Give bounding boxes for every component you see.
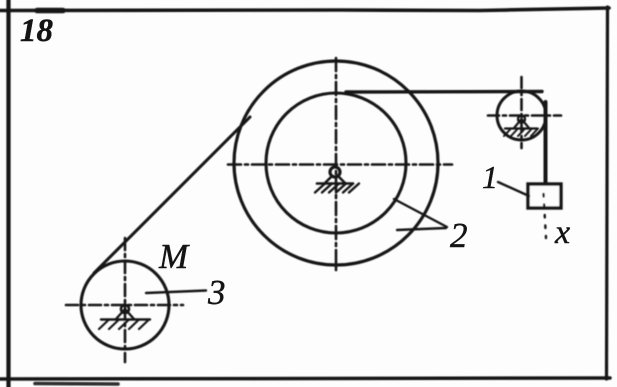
frame top border thick segment [37, 8, 63, 14]
leader line for label 1 [498, 182, 529, 196]
rope wire pulley 2 to top-right pulley [346, 90, 542, 94]
frame right border [607, 7, 608, 379]
pulley 3 pivot hatching [99, 320, 149, 330]
block 1 (load) [528, 184, 561, 208]
top-right pulley vertical centerline [520, 77, 523, 148]
pulley 2 pivot hatching [315, 184, 359, 193]
top-right pulley pivot base [505, 127, 537, 129]
frame bottom border [0, 378, 610, 379]
pulley 3 pivot triangle [116, 309, 134, 319]
rope wire vertical to block [544, 102, 548, 184]
pulley 2 pivot triangle [325, 176, 345, 183]
x axis dotted line below block [544, 194, 547, 238]
pulley 2 pivot pin [330, 167, 340, 177]
bottom smudge marks [35, 382, 118, 386]
pulley 3 horizontal centerline [66, 304, 183, 307]
svg-text:2: 2 [450, 216, 468, 255]
pulley 2 pivot base [317, 182, 353, 185]
leader line for label 3 [146, 291, 206, 294]
svg-text:18: 18 [20, 13, 53, 49]
top-right pulley circle [497, 91, 546, 140]
svg-text:1: 1 [482, 159, 498, 195]
pulley 2 outer circle [234, 61, 438, 265]
frame left border [6, 0, 10, 387]
top-right pulley pivot pin [518, 116, 525, 123]
pulley 2 inner circle [266, 93, 406, 233]
top-right pulley pivot triangle [514, 119, 529, 128]
pulley 3 circle [81, 261, 169, 349]
belt wire from pulley 2 to pulley 3 [94, 117, 250, 273]
leader lines for label 2 [394, 199, 447, 230]
top-right pulley pivot hatching [504, 129, 538, 137]
frame top border [0, 8, 609, 11]
pulley 3 pivot base [101, 318, 150, 320]
pulley 2 vertical centerline [335, 58, 338, 274]
svg-text:3: 3 [207, 273, 226, 312]
pulley 3 pivot pin [121, 305, 129, 313]
pulley 2 horizontal centerline [228, 163, 452, 166]
pulley 3 vertical centerline [124, 238, 127, 362]
svg-text:M: M [158, 237, 190, 276]
top-right pulley horizontal centerline [488, 114, 561, 117]
svg-text:x: x [554, 214, 570, 251]
